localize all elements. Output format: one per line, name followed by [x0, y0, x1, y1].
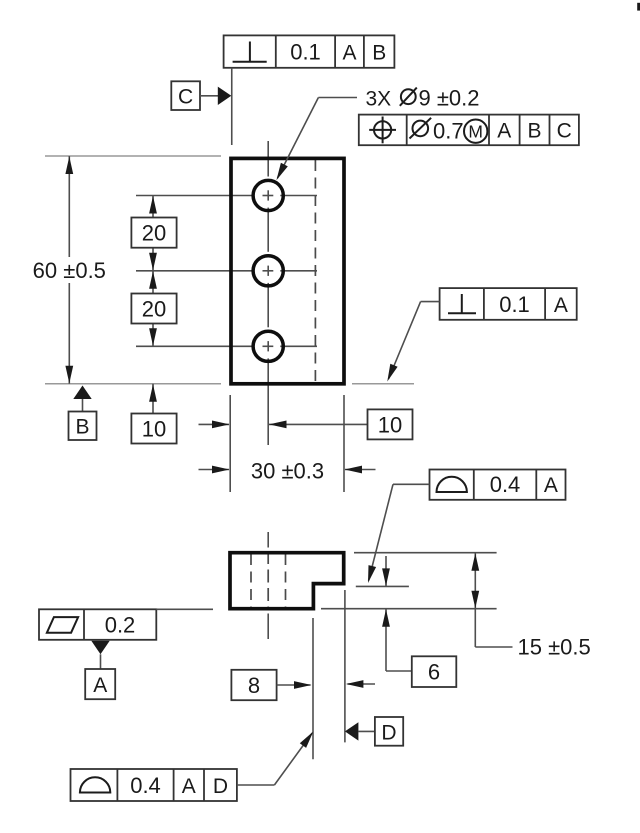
wire FCF6 leader	[237, 733, 312, 785]
svg-text:0.1: 0.1	[499, 292, 530, 317]
wire datum D stem	[358, 730, 375, 732]
node datum B box	[69, 412, 97, 441]
svg-text:A: A	[342, 42, 356, 65]
node 10-right right arrowhead	[269, 421, 287, 429]
node FCF4 profile symbol	[437, 477, 467, 492]
wire notch edge extension below	[312, 618, 314, 759]
svg-text:B: B	[527, 120, 541, 143]
svg-text:6: 6	[428, 660, 440, 685]
svg-text:D: D	[381, 722, 396, 745]
node FCF3 datum ref A	[554, 294, 568, 317]
node FCF2 tolerance dia 0.7 M	[410, 118, 488, 144]
node FCF6 datum ref D	[213, 775, 228, 798]
svg-text:B: B	[75, 416, 89, 439]
node FCF1 perpendicularity symbol	[233, 42, 267, 62]
node FCF1 perpendicularity frame	[224, 35, 395, 67]
node 6-dim up arrowhead	[382, 609, 390, 627]
node FCF6 tolerance 0.4	[130, 773, 161, 798]
wire 20-dim upper line segments	[152, 196, 154, 347]
wire 60-dim vertical dimension line upper	[68, 156, 70, 257]
svg-text:20: 20	[142, 297, 166, 322]
node datum D triangle	[345, 722, 359, 740]
node FCF6 leader arrowhead	[300, 732, 314, 748]
node FCF4 tolerance 0.4	[490, 472, 521, 497]
node FCF4 datum ref A	[544, 474, 558, 497]
node hole 1 circle	[253, 180, 283, 210]
node 60-dim bottom arrowhead	[65, 366, 73, 384]
node label 20 lower box	[131, 294, 176, 324]
node FCF2 datum ref C	[557, 120, 572, 143]
svg-text:B: B	[372, 42, 386, 65]
svg-text:M: M	[468, 122, 483, 142]
svg-text:D: D	[213, 775, 228, 798]
wire 10-left leader line	[152, 384, 154, 414]
node FCF1 datum ref B	[372, 42, 386, 65]
wire 8-dim outside line right	[348, 683, 376, 685]
svg-text:A: A	[544, 474, 558, 497]
svg-text:8: 8	[248, 673, 260, 698]
wire 6-dim lower line	[386, 609, 412, 671]
node FCF1 datum ref A	[342, 42, 356, 65]
node part outline side view	[230, 553, 344, 609]
node FCF3 leader arrowhead	[387, 364, 397, 382]
wire datum C stem	[200, 95, 219, 97]
node 20-dim arrowheads	[149, 196, 157, 346]
wire bottom extension line right of part	[352, 383, 414, 385]
node label 20 upper box	[131, 218, 176, 248]
node FCF3 tolerance 0.1	[499, 292, 530, 317]
wire leader of 3X dia9	[278, 98, 358, 179]
node label 10 right box	[368, 409, 413, 439]
wire 8-dim line	[277, 684, 311, 686]
svg-text:9 ±0.2: 9 ±0.2	[419, 85, 480, 110]
node label 10 left box	[131, 414, 176, 444]
node corner mark	[637, 3, 640, 11]
node FCF2 position frame	[359, 115, 579, 146]
svg-text:0.7: 0.7	[433, 118, 464, 143]
node FCF5 flatness frame	[39, 609, 156, 640]
node 10-left arrowhead	[149, 384, 157, 402]
node datum A box	[85, 669, 115, 699]
wire 10-right dimension line	[269, 423, 368, 425]
wire FCF1 leader down to part edge	[231, 68, 233, 145]
wire FCF3 leader	[389, 302, 440, 379]
wire hidden line left in side view	[250, 554, 252, 608]
node FCF6 profile symbol	[80, 777, 110, 792]
node FCF6 profile frame	[71, 769, 237, 801]
wire datum A stem	[100, 654, 102, 669]
node 60-dim top arrowhead	[65, 157, 73, 175]
wire step surface extension line	[356, 585, 409, 587]
node datum A triangle	[91, 641, 109, 655]
node hole 2 circle	[253, 256, 283, 286]
node hole 3 circle	[253, 331, 283, 361]
wire hidden line right in side view	[285, 554, 287, 608]
svg-text:0.2: 0.2	[105, 613, 136, 638]
node label 3X dia9	[366, 85, 480, 110]
node FCF1 tolerance 0.1	[290, 40, 321, 65]
node 8-dim right arrowhead	[294, 681, 312, 689]
wire 60-dim vertical dimension line lower	[68, 283, 70, 384]
wire vertical centerline through holes	[267, 141, 269, 445]
node label 15 +-0.5	[518, 635, 591, 660]
wire bottom surface extension line	[321, 608, 497, 610]
node label 6 box	[412, 656, 457, 687]
svg-text:C: C	[178, 86, 193, 109]
wire 30-dim left outside line	[199, 469, 230, 471]
node FCF2 datum ref A	[497, 120, 511, 143]
wire 30-dim right outside line	[345, 469, 376, 471]
node leader arrowhead of 3X dia9	[276, 163, 287, 180]
wire 15-dim horizontal connector	[475, 646, 512, 648]
wire hole row 2 horizontal centerline	[136, 270, 317, 272]
node datum C box	[171, 81, 200, 110]
svg-text:0.4: 0.4	[490, 472, 521, 497]
wire datum B stem	[82, 399, 84, 412]
node FCF2 datum ref B	[527, 120, 541, 143]
node part outline front view	[231, 158, 344, 383]
node 10-right left arrowhead	[212, 421, 230, 429]
svg-text:0.4: 0.4	[130, 773, 161, 798]
svg-text:0.1: 0.1	[290, 40, 321, 65]
svg-text:10: 10	[142, 417, 166, 442]
node FCF5 tolerance 0.2	[105, 613, 136, 638]
svg-text:C: C	[557, 120, 572, 143]
node 30-dim right arrowhead	[345, 466, 363, 474]
wire 6-dim upper line	[385, 556, 387, 586]
node 30-dim left arrowhead	[212, 466, 230, 474]
wire side view centerline	[267, 532, 269, 639]
wire hole row 1 horizontal centerline	[136, 195, 317, 197]
node 6-dim down arrowhead	[382, 568, 390, 586]
svg-text:A: A	[554, 294, 568, 317]
node label 60 +-0.5	[33, 258, 106, 283]
wire top extension line of 60 dim	[45, 155, 221, 157]
node FCF2 position symbol	[369, 117, 396, 144]
node FCF4 profile frame	[430, 470, 566, 500]
node label 8 box	[231, 670, 276, 700]
node FCF6 datum ref A	[182, 775, 196, 798]
node FCF3 perpendicularity frame	[440, 288, 577, 320]
node FCF3 perpendicularity symbol	[448, 294, 476, 313]
wire bottom extension line left of 60 dim	[45, 383, 221, 385]
svg-text:A: A	[182, 775, 196, 798]
node 8-dim left arrowhead	[346, 680, 364, 688]
svg-text:3X: 3X	[366, 87, 392, 110]
wire FCF4 leader	[369, 484, 430, 580]
wire 15-dim vertical line	[474, 553, 476, 647]
svg-text:A: A	[497, 120, 511, 143]
svg-text:30 ±0.3: 30 ±0.3	[251, 459, 324, 484]
node 15-dim arrowheads	[471, 553, 479, 608]
wire 10-right outside arrow line	[199, 423, 230, 425]
node datum D box	[375, 717, 403, 746]
node datum B triangle	[73, 386, 91, 400]
node FCF5 flatness symbol	[47, 617, 78, 633]
svg-text:A: A	[93, 674, 107, 697]
node label 30 +-0.3	[251, 459, 324, 484]
wire hidden line in front view	[314, 160, 316, 382]
svg-text:20: 20	[142, 221, 166, 246]
wire top surface extension line	[354, 552, 497, 554]
svg-text:15 ±0.5: 15 ±0.5	[518, 635, 591, 660]
wire hole row 3 horizontal centerline	[136, 345, 317, 347]
svg-text:10: 10	[378, 412, 402, 437]
wire left edge extension below part	[229, 395, 231, 492]
node datum C triangle	[218, 87, 232, 105]
wire right edge extension below	[344, 590, 346, 742]
node FCF4 leader arrowhead	[368, 565, 376, 583]
wire right edge extension below part	[343, 395, 345, 492]
svg-text:60 ±0.5: 60 ±0.5	[33, 258, 106, 283]
wire FCF5 connector to part	[156, 608, 213, 610]
